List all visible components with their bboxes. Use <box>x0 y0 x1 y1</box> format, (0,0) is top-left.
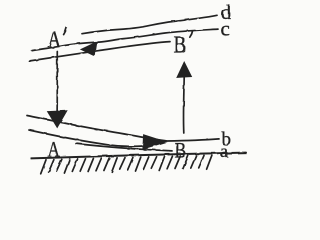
node B' label <box>174 31 187 58</box>
wire: vertical arrow shaft from B up to B' <box>182 77 185 133</box>
wire: vertical arrow shaft from A' down to A <box>56 52 58 113</box>
label b <box>222 129 232 150</box>
node A' label <box>47 26 61 53</box>
curve c <box>32 29 218 50</box>
node A label <box>47 138 60 163</box>
label a <box>220 141 228 161</box>
ground line a <box>31 153 246 159</box>
node A' prime mark <box>64 28 67 35</box>
hand-drawn physics diagram: circulation cell between ground (lines a,b) and upper layer (curves c,d) <box>0 0 261 191</box>
svg-text:A: A <box>47 26 61 53</box>
label c <box>221 16 230 40</box>
svg-text:B: B <box>174 31 187 58</box>
curve d <box>82 15 217 33</box>
wire: arrow line from B' toward A' <box>29 42 170 61</box>
label d <box>221 2 231 24</box>
svg-text:d: d <box>221 2 231 24</box>
ground hatching <box>41 155 212 174</box>
wire: short line under B <box>76 144 172 151</box>
arrowhead pointing left on B'->A' line <box>81 42 96 55</box>
arrowhead pointing right at B <box>143 135 166 149</box>
wire: arrow shaft from A toward B <box>29 130 144 146</box>
node B' prime mark <box>190 31 193 37</box>
node B label <box>175 139 187 163</box>
arrowhead pointing down at A <box>48 111 67 128</box>
svg-text:a: a <box>220 141 228 161</box>
line b <box>27 116 219 142</box>
svg-text:B: B <box>175 139 187 163</box>
arrowhead pointing up at B' <box>177 62 191 77</box>
